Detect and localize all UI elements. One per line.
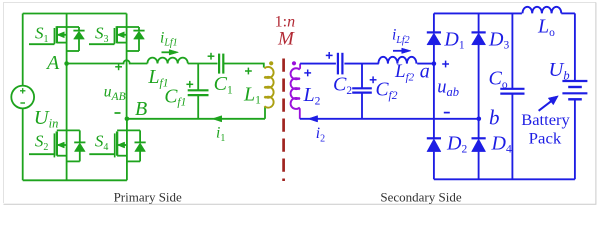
wire D3 leg upper bbox=[478, 13, 480, 32]
capacitor Co leg lower bbox=[511, 94, 513, 180]
capacitor Cf1 bbox=[188, 64, 209, 119]
wire primary top rail bbox=[23, 13, 127, 15]
wire D4 leg (node b to D4) bbox=[478, 119, 480, 139]
wire D2 leg (node a to D2) bbox=[433, 64, 435, 139]
diode D1 bbox=[427, 32, 441, 44]
label + (L1) bbox=[245, 68, 252, 75]
wire Lo to right rail corner bbox=[561, 12, 575, 14]
wire L2 top stub (purple) bbox=[299, 64, 301, 69]
label + (Cf1) bbox=[186, 81, 193, 88]
transformer primary winding L1 bbox=[264, 67, 273, 108]
svg-text:M: M bbox=[277, 29, 295, 50]
wire Lf2 to node a bbox=[417, 63, 434, 65]
transformer secondary winding L2 bbox=[291, 68, 300, 109]
wire D3 anode to node b bbox=[478, 45, 480, 119]
wire D1 leg upper bbox=[433, 13, 435, 32]
svg-text:Battery: Battery bbox=[521, 112, 570, 129]
current arrow iLf1 bbox=[162, 50, 179, 55]
node B bbox=[125, 117, 130, 122]
wire secondary bottom rail bbox=[434, 178, 575, 180]
wire D4 anode to bottom rail bbox=[478, 152, 480, 180]
wire node B to L1 bottom (current i1) bbox=[127, 118, 265, 120]
diode D4 bbox=[472, 138, 486, 151]
body diode of S4 bbox=[135, 130, 146, 161]
svg-text:Primary Side: Primary Side bbox=[114, 189, 182, 204]
svg-text:a: a bbox=[420, 61, 430, 83]
wire D2 anode to bottom rail bbox=[433, 152, 435, 180]
current arrow iLf2 bbox=[393, 48, 411, 53]
transistor S2 bbox=[29, 64, 80, 181]
label - (uAB) bbox=[115, 112, 121, 114]
transistor S1 bbox=[29, 14, 79, 64]
svg-text:B: B bbox=[135, 98, 147, 120]
svg-text:A: A bbox=[45, 52, 60, 74]
capacitor Cf2 bbox=[352, 64, 372, 119]
inductor Lo bbox=[523, 7, 562, 14]
node A bbox=[64, 61, 69, 66]
wire right rail upper bbox=[574, 13, 576, 81]
wire node A to Lf1 (hop over S3 leg) bbox=[67, 60, 148, 63]
wire L1 bottom stub bbox=[264, 107, 266, 119]
label + (C1) bbox=[208, 53, 215, 60]
battery pack annotation arrow bbox=[539, 96, 559, 111]
node a bbox=[432, 61, 437, 66]
label - (uab) bbox=[444, 112, 450, 114]
inductor Lf2 bbox=[378, 57, 416, 64]
voltage source Uin bbox=[11, 86, 34, 109]
capacitor C2 bbox=[338, 53, 343, 75]
wire primary bottom rail bbox=[23, 179, 127, 181]
svg-text:b: b bbox=[489, 106, 500, 130]
label + (uAB) bbox=[115, 63, 122, 70]
wire D1 anode to node a bbox=[433, 45, 435, 64]
svg-text:Pack: Pack bbox=[529, 130, 562, 147]
label + (uab) bbox=[442, 61, 449, 68]
battery Ub bbox=[562, 81, 587, 99]
svg-text:Secondary Side: Secondary Side bbox=[380, 189, 461, 204]
transformer dot secondary bbox=[292, 61, 296, 65]
wire C2 to Lf2 bbox=[344, 63, 378, 65]
capacitor Co leg upper bbox=[511, 13, 513, 88]
body diode of S1 bbox=[73, 27, 84, 51]
transistor S3 bbox=[89, 14, 139, 119]
wire primary left rail upper bbox=[22, 14, 24, 86]
wire L2 bottom to node b (current i2) bbox=[300, 118, 479, 120]
transformer core boundary (dashed) bbox=[282, 59, 285, 182]
label + (Cf2) bbox=[370, 76, 377, 83]
transistor S4 bbox=[89, 119, 140, 181]
wire Lf1 to C1 bbox=[188, 63, 218, 65]
label + (C2) bbox=[326, 52, 333, 59]
wire L2 top to C2 bbox=[300, 63, 336, 65]
capacitor C1 bbox=[219, 54, 223, 74]
wire right rail lower bbox=[574, 99, 576, 179]
wire secondary top rail bbox=[434, 12, 522, 14]
node b bbox=[477, 117, 482, 122]
capacitor Co bbox=[500, 89, 524, 94]
transformer dot primary bbox=[269, 61, 273, 65]
body diode of S3 bbox=[133, 27, 144, 51]
diode D3 bbox=[472, 32, 486, 44]
diode D2 bbox=[427, 138, 441, 151]
wire primary left rail lower bbox=[22, 109, 24, 181]
wire C1 to L1 bbox=[223, 64, 263, 68]
label + (L2) bbox=[304, 70, 311, 77]
wire L2 bottom stub (purple) bbox=[299, 108, 301, 118]
body diode of S2 bbox=[74, 130, 85, 161]
inductor Lf1 bbox=[147, 58, 187, 64]
